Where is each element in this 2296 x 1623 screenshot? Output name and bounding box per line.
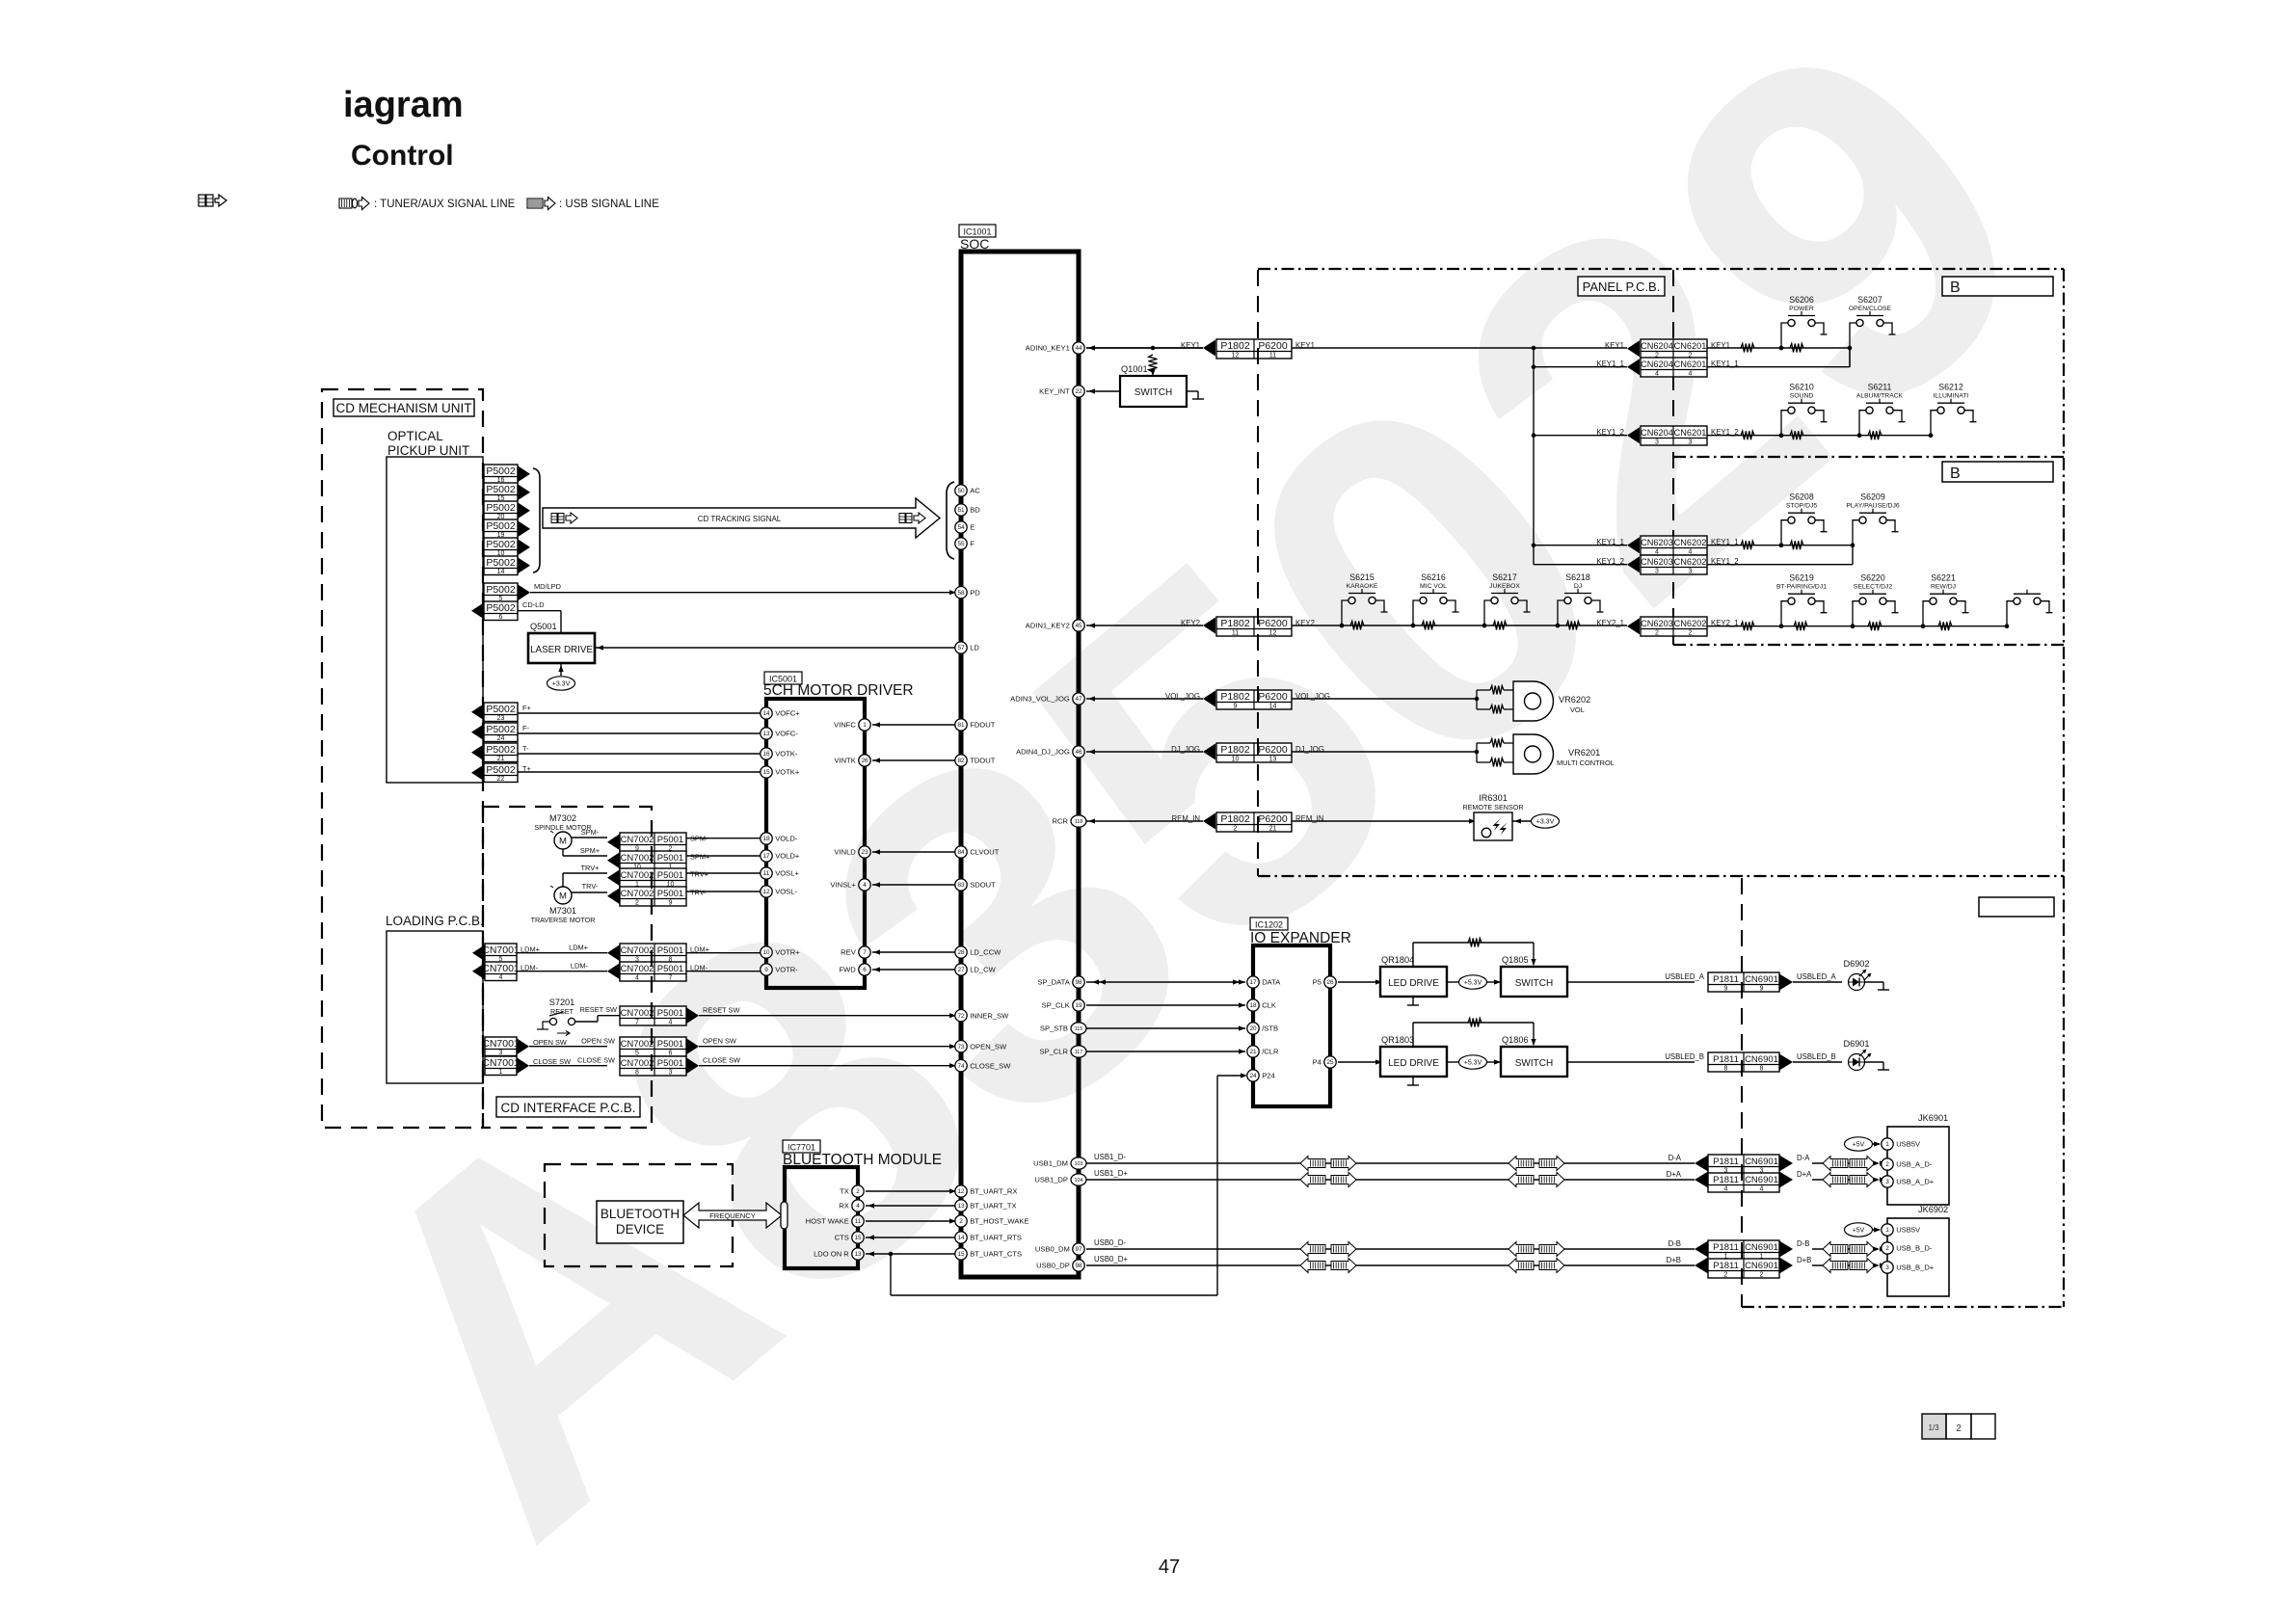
wire reset switch to table xyxy=(575,1005,620,1022)
svg-text:HOST WAKE: HOST WAKE xyxy=(806,1217,849,1226)
switch S6217 JUKEBOX xyxy=(1482,572,1531,627)
IO expander pin 24 P24 xyxy=(1247,1070,1275,1081)
svg-text:JK6902: JK6902 xyxy=(1918,1205,1948,1214)
svg-text:LD_CCW: LD_CCW xyxy=(970,948,1001,957)
IO expander pin 20 /STB xyxy=(1247,1023,1278,1034)
svg-text:P1802: P1802 xyxy=(1220,618,1250,629)
svg-text:SOUND: SOUND xyxy=(1790,393,1814,400)
svg-text:S6217: S6217 xyxy=(1492,572,1517,582)
svg-text:BT_UART_CTS: BT_UART_CTS xyxy=(970,1250,1022,1259)
wire TRV+ to motor driver xyxy=(686,872,761,874)
svg-text:RCR: RCR xyxy=(1053,817,1069,826)
svg-text:CN7001: CN7001 xyxy=(482,945,520,956)
svg-text:11: 11 xyxy=(1232,630,1239,637)
svg-text:P24: P24 xyxy=(1262,1072,1275,1080)
wire KEY1_2 B1 xyxy=(1707,433,1933,438)
svg-text:P1811: P1811 xyxy=(1713,1242,1739,1253)
svg-text:4: 4 xyxy=(635,975,639,982)
SOC pin 51 BD xyxy=(955,504,980,516)
svg-text:REM_IN: REM_IN xyxy=(1172,814,1200,823)
connector CN7002/P5001 row OPEN SW xyxy=(620,1037,736,1057)
svg-text:CD TRACKING SIGNAL: CD TRACKING SIGNAL xyxy=(698,515,782,523)
svg-text:SPM-: SPM- xyxy=(581,828,600,837)
wire LDM+ to motor driver xyxy=(686,952,761,954)
svg-text:D+B: D+B xyxy=(1667,1256,1681,1264)
svg-text:26: 26 xyxy=(861,758,868,764)
svg-text:P1802: P1802 xyxy=(1220,691,1250,703)
svg-text:14: 14 xyxy=(957,1235,965,1241)
svg-text:2: 2 xyxy=(1689,630,1693,637)
svg-text:LED DRIVE: LED DRIVE xyxy=(1388,978,1439,989)
svg-text:12: 12 xyxy=(762,889,770,895)
svg-text:REW/DJ: REW/DJ xyxy=(1931,584,1956,591)
sheet index boxes xyxy=(1922,1414,1995,1439)
SOC pin 54 E xyxy=(955,521,974,533)
motor driver pin 26 VINTK xyxy=(834,755,870,766)
IO expander IC1202 box xyxy=(1253,945,1330,1106)
svg-text:9: 9 xyxy=(669,900,673,907)
wire TRV- from motor xyxy=(572,882,607,892)
CD INTERFACE P.C.B. label xyxy=(496,1097,640,1117)
svg-text:12: 12 xyxy=(957,1188,965,1195)
svg-text:RESET SW: RESET SW xyxy=(580,1005,617,1014)
connector P5002 pin 5 MD/LPD xyxy=(484,582,561,602)
resistor under S6208 xyxy=(1790,541,1803,549)
svg-text:P5002: P5002 xyxy=(486,584,516,596)
wire D-B to USB jack xyxy=(1812,1242,1886,1257)
SOC pin 118 RCR xyxy=(1053,815,1086,827)
svg-text:CN7002: CN7002 xyxy=(621,1039,654,1050)
svg-text:9: 9 xyxy=(1760,986,1764,993)
svg-text:PANEL P.C.B.: PANEL P.C.B. xyxy=(1583,279,1661,294)
svg-text:15: 15 xyxy=(762,769,770,776)
svg-text:1: 1 xyxy=(1885,1227,1889,1234)
svg-text:24: 24 xyxy=(497,735,505,742)
svg-text:44: 44 xyxy=(1075,345,1082,352)
SOC pin 14 BT_UART_RTS xyxy=(955,1232,1022,1243)
JK6902 pin 2 USB_B_D- xyxy=(1882,1242,1933,1254)
svg-text:P1802: P1802 xyxy=(1220,340,1250,352)
svg-text:KEY1: KEY1 xyxy=(1605,341,1624,350)
wire KEY1_2 lower xyxy=(1534,564,1627,566)
svg-text:1/3: 1/3 xyxy=(1928,1423,1939,1432)
wire KEY1_1 B2 xyxy=(1707,543,1855,547)
svg-text:P5002: P5002 xyxy=(486,724,516,735)
svg-text:8: 8 xyxy=(635,1070,639,1077)
SOC pin 115 SP_STB xyxy=(1040,1023,1086,1034)
wire USBLED_B to connector xyxy=(1567,1052,1704,1062)
svg-text:CN6202: CN6202 xyxy=(1674,557,1707,567)
svg-text:47: 47 xyxy=(1075,696,1082,703)
wire SPM+ from motor xyxy=(563,846,607,856)
svg-text:P5001: P5001 xyxy=(657,945,683,956)
svg-text:P5001: P5001 xyxy=(657,964,683,974)
motor driver pin 12 VOSL- xyxy=(761,886,798,897)
connector CN6204/CN6201 KEY1_1 xyxy=(1596,358,1738,378)
svg-text:MIC VOL: MIC VOL xyxy=(1420,583,1447,590)
svg-text:USBLED_A: USBLED_A xyxy=(1797,972,1837,981)
svg-text:CN6901: CN6901 xyxy=(1745,974,1778,985)
SOC pin 83 SDOUT xyxy=(955,879,996,891)
svg-text:/STB: /STB xyxy=(1262,1024,1278,1033)
svg-text:CN7002: CN7002 xyxy=(621,853,654,864)
svg-text:USB0_D+: USB0_D+ xyxy=(1094,1255,1128,1264)
svg-text:TRV-: TRV- xyxy=(690,889,707,897)
wire USB1_D+ data line xyxy=(1086,1169,1695,1180)
svg-text:CLOSE SW: CLOSE SW xyxy=(577,1056,615,1065)
sub-board B1 divider xyxy=(1673,456,2064,458)
svg-text:DJ_JOG: DJ_JOG xyxy=(1171,745,1200,754)
svg-text:14: 14 xyxy=(497,569,505,575)
svg-text:4: 4 xyxy=(1655,371,1659,378)
wire IO expander to QR1803 xyxy=(1338,1059,1382,1064)
bluetooth device boundary xyxy=(545,1164,733,1266)
IO EXPANDER title xyxy=(1250,930,1351,946)
resistor under S6219 xyxy=(1794,622,1807,630)
wire SOC to VOL_JOG connector xyxy=(1086,696,1203,701)
resistor under S6218 xyxy=(1566,622,1580,630)
SOC pin 98 SP_DATA xyxy=(1037,976,1084,988)
svg-text:JK6901: JK6901 xyxy=(1918,1113,1948,1123)
svg-text:SWITCH: SWITCH xyxy=(1135,387,1172,398)
SOC pin 97 USB0_DM xyxy=(1035,1243,1084,1255)
SOC pin 117 SP_CLR xyxy=(1039,1046,1086,1057)
connector JK6901 box xyxy=(1887,1127,1949,1205)
connector P5002 pin 14 xyxy=(484,556,530,575)
svg-text:11: 11 xyxy=(855,1218,862,1225)
wire motor driver to SOC xyxy=(872,967,955,971)
CD TRACKING SIGNAL bus arrow xyxy=(543,498,940,538)
svg-text:21: 21 xyxy=(497,756,505,762)
SOC pin 57 LD xyxy=(955,642,980,653)
svg-text:IC1202: IC1202 xyxy=(1255,920,1283,930)
CD INTERFACE P.C.B. boundary xyxy=(483,807,652,1128)
svg-text:S6207: S6207 xyxy=(1857,295,1882,305)
motor driver pin 14 VOFC+ xyxy=(761,707,800,719)
svg-text:21: 21 xyxy=(1249,1049,1257,1055)
svg-text:LDM-: LDM- xyxy=(571,962,589,971)
connector P5002 pin 10 xyxy=(484,538,530,557)
svg-text:BT_UART_RTS: BT_UART_RTS xyxy=(970,1234,1022,1242)
svg-text:REV: REV xyxy=(841,948,857,957)
svg-text:P5001: P5001 xyxy=(657,870,683,881)
svg-text:CN6204: CN6204 xyxy=(1641,428,1673,438)
switch S6216 MIC VOL xyxy=(1411,572,1459,627)
svg-text:S6211: S6211 xyxy=(1868,383,1892,392)
wire SOC to DJ_JOG connector xyxy=(1086,749,1203,754)
potentiometer VR6202 VOL xyxy=(1475,681,1591,721)
wire KEY1 B1 xyxy=(1707,346,1852,351)
wire VOL_JOG to VR6202 xyxy=(1292,698,1477,700)
svg-text:E: E xyxy=(970,523,974,532)
motor driver pin 10 VOTR+ xyxy=(761,946,800,958)
svg-text:SP_CLK: SP_CLK xyxy=(1042,1001,1070,1010)
connector P1811/CN6901 D+B xyxy=(1667,1256,1812,1279)
svg-text:5CH MOTOR DRIVER: 5CH MOTOR DRIVER xyxy=(763,682,914,699)
SOC pin 55 F xyxy=(955,538,974,549)
svg-text:JUKEBOX: JUKEBOX xyxy=(1489,583,1520,590)
svg-text:REMOTE SENSOR: REMOTE SENSOR xyxy=(1462,803,1523,811)
motor driver pin 13 VOFC- xyxy=(761,728,798,739)
connector P5002 pin 20 xyxy=(484,501,530,520)
SWITCH block Q1806 xyxy=(1501,1047,1567,1077)
svg-text:S6219: S6219 xyxy=(1789,573,1814,583)
svg-text:D6901: D6901 xyxy=(1843,1039,1869,1049)
svg-text:VOLD+: VOLD+ xyxy=(775,852,800,861)
svg-text:VOTR-: VOTR- xyxy=(775,966,798,974)
switch S6206 POWER xyxy=(1779,295,1828,350)
svg-text:25: 25 xyxy=(1326,1059,1334,1066)
svg-text:4: 4 xyxy=(669,1020,673,1026)
IO expander pin 21 /CLR xyxy=(1247,1046,1279,1057)
main/panel dashed boundary xyxy=(1257,270,1259,876)
wire USBLED_A to connector xyxy=(1567,972,1705,982)
svg-text:ALBUM/TRACK: ALBUM/TRACK xyxy=(1856,393,1904,400)
svg-text:81: 81 xyxy=(957,722,965,729)
connector CN6203/CN6202 KEY1_2 lower xyxy=(1596,555,1738,575)
motor driver pin 17 VOLD+ xyxy=(761,850,800,862)
wire SP bus xyxy=(1086,1049,1245,1053)
connector CN7002/P5001 row RESET SW xyxy=(620,1006,739,1026)
svg-text:+3.3V: +3.3V xyxy=(1536,818,1555,825)
potentiometer VR6201 MULTI CONTROL xyxy=(1475,734,1615,774)
op-amp U IC5001 5CH motor driver box xyxy=(766,699,865,988)
svg-text:: TUNER/AUX SIGNAL LINE: : TUNER/AUX SIGNAL LINE xyxy=(374,199,516,210)
svg-text:13: 13 xyxy=(1269,757,1277,763)
svg-text:CN6201: CN6201 xyxy=(1674,428,1707,438)
svg-text:LED DRIVE: LED DRIVE xyxy=(1388,1058,1439,1069)
SOC pin 27 LD_CW xyxy=(955,964,997,975)
svg-text:VINLD: VINLD xyxy=(834,848,856,857)
svg-text:VOL: VOL xyxy=(1570,705,1585,714)
svg-text:S6209: S6209 xyxy=(1860,492,1885,502)
svg-text:3: 3 xyxy=(499,1050,503,1056)
svg-text:2: 2 xyxy=(1760,1272,1764,1279)
svg-text:CN7001: CN7001 xyxy=(482,963,520,974)
svg-text:TRAVERSE MOTOR: TRAVERSE MOTOR xyxy=(531,916,596,924)
svg-text:BT_HOST_WAKE: BT_HOST_WAKE xyxy=(970,1217,1028,1226)
wire KEY1_1 row xyxy=(1534,366,1627,368)
svg-text:9: 9 xyxy=(1234,704,1238,710)
connector P1802/P6200 REM_IN xyxy=(1172,812,1324,833)
svg-text:46: 46 xyxy=(1075,749,1082,756)
wire REM_IN to IR6301 xyxy=(1292,818,1476,823)
svg-text:CN7001: CN7001 xyxy=(482,1057,520,1069)
svg-text:D-A: D-A xyxy=(1797,1154,1810,1162)
svg-text:2: 2 xyxy=(1885,1245,1889,1252)
svg-text:P6200: P6200 xyxy=(1258,691,1288,703)
connector CN6203/CN6202 KEY1_1 lower xyxy=(1596,536,1738,556)
svg-text:13: 13 xyxy=(957,1203,965,1210)
wire D+B to USB jack xyxy=(1812,1259,1886,1273)
svg-text:S6220: S6220 xyxy=(1860,573,1885,583)
svg-text:CN6203: CN6203 xyxy=(1641,619,1673,628)
svg-text:3: 3 xyxy=(1689,439,1693,446)
wire SP bus xyxy=(1086,979,1245,984)
svg-text:CN6901: CN6901 xyxy=(1745,1261,1778,1271)
IO expander pin 18 CLK xyxy=(1247,999,1276,1011)
wire SOC to KEY1 connector xyxy=(1086,345,1203,350)
connector P1811/CN6901 USBLED_B xyxy=(1708,1052,1836,1073)
panel sub-board dashed boundary xyxy=(1672,270,1674,645)
empty label box xyxy=(1979,897,2054,917)
JK6901 pin 3 USB_A_D+ xyxy=(1882,1176,1935,1187)
svg-text:4: 4 xyxy=(863,882,867,889)
connector CN7002/P5001 row SPM+ xyxy=(607,851,709,871)
svg-text:P5002: P5002 xyxy=(486,539,516,550)
svg-text:8: 8 xyxy=(1724,1066,1728,1073)
svg-text:+5V: +5V xyxy=(1853,1141,1865,1148)
PANEL P.C.B. boundary box xyxy=(1258,269,2064,876)
connector CN7002/P5001 row LDM- xyxy=(607,962,708,982)
svg-text:F+: F+ xyxy=(522,704,531,712)
svg-text:Control: Control xyxy=(351,140,454,172)
connector P5002 pin 21 T- xyxy=(471,743,529,762)
resistor under S6221 xyxy=(1938,622,1952,630)
svg-text:74: 74 xyxy=(957,1063,965,1070)
SOC title xyxy=(960,236,989,252)
wire motor driver to SOC xyxy=(872,882,955,887)
svg-text:USB5V: USB5V xyxy=(1896,1226,1921,1235)
transistor QR1804 label xyxy=(1381,955,1414,965)
connector P1802/P6200 DJ_JOG xyxy=(1171,743,1324,763)
SOC pin 44 ADIN0_KEY1 xyxy=(1026,342,1084,354)
SOC pin 12 BT_UART_RX xyxy=(955,1185,1018,1197)
svg-text:VOL_JOG: VOL_JOG xyxy=(1165,692,1200,701)
svg-text:P1811: P1811 xyxy=(1713,1261,1739,1271)
laser drive block Q5001 xyxy=(528,633,595,663)
connector CN7001 pin 4 LDM- xyxy=(472,962,539,981)
svg-text:USB0_D-: USB0_D- xyxy=(1094,1238,1126,1247)
svg-text:98: 98 xyxy=(1075,1263,1082,1269)
wire USB1_D- data line xyxy=(1086,1153,1695,1163)
svg-text:S6218: S6218 xyxy=(1565,572,1590,582)
svg-text:RX: RX xyxy=(839,1202,849,1211)
bluetooth module pin 2 TX xyxy=(840,1185,864,1197)
wire CLOSE SW to SOC xyxy=(699,1063,956,1068)
svg-text:P5002: P5002 xyxy=(486,557,516,569)
svg-text:23: 23 xyxy=(497,715,505,722)
svg-text:P5: P5 xyxy=(1313,978,1322,987)
motor driver pin 7 REV xyxy=(841,946,870,958)
resistor under S6211 xyxy=(1868,431,1882,439)
IC7701 reference label xyxy=(783,1140,820,1153)
switch S6209 PLAY/PAUSE/DJ6 xyxy=(1846,492,1899,532)
svg-text:KARAOKE: KARAOKE xyxy=(1347,583,1378,590)
connector P5002 pin 24 F- xyxy=(471,723,530,742)
svg-text:1: 1 xyxy=(1885,1141,1889,1148)
svg-text:SWITCH: SWITCH xyxy=(1515,978,1553,989)
svg-text:14: 14 xyxy=(762,710,770,717)
wire SP bus xyxy=(1086,1002,1245,1007)
wire motor driver to SOC xyxy=(872,949,955,954)
svg-text:DATA: DATA xyxy=(1262,978,1281,987)
svg-text:CD INTERFACE P.C.B.: CD INTERFACE P.C.B. xyxy=(500,1101,635,1115)
wire KEY2 panel xyxy=(1292,624,1627,628)
svg-text:P1811: P1811 xyxy=(1713,1175,1739,1185)
svg-text:USBLED_A: USBLED_A xyxy=(1665,972,1705,981)
wire DJ_JOG to VR6201 xyxy=(1292,751,1477,753)
svg-text:D6902: D6902 xyxy=(1843,959,1869,969)
svg-text:POWER: POWER xyxy=(1789,306,1814,312)
svg-text:DJ: DJ xyxy=(1574,583,1582,590)
bluetooth module pin 13 LDO ON R xyxy=(814,1248,864,1260)
svg-text:TDOUT: TDOUT xyxy=(970,757,996,765)
svg-text:P6200: P6200 xyxy=(1258,813,1288,825)
svg-text:M: M xyxy=(559,836,567,846)
svg-text:P6200: P6200 xyxy=(1258,744,1288,756)
svg-text:4: 4 xyxy=(1689,371,1693,378)
svg-text:12: 12 xyxy=(1269,630,1277,637)
connector CN7002/P5001 row TRV- xyxy=(607,887,707,907)
motor driver pin 11 VOSL+ xyxy=(761,867,800,879)
SOC pin 46 ADIN4_DJ_JOG xyxy=(1016,746,1084,758)
sub-board dashed boundary right xyxy=(1741,878,1743,1307)
connector P1811/CN6901 D-B xyxy=(1669,1239,1810,1261)
svg-text:13: 13 xyxy=(854,1251,862,1258)
svg-text:SP_DATA: SP_DATA xyxy=(1037,978,1070,987)
resistor pull at Q1001 xyxy=(1149,355,1158,376)
svg-text:SPM+: SPM+ xyxy=(580,846,600,855)
resistor KEY1_2 in xyxy=(1741,431,1754,439)
svg-text:USB5V: USB5V xyxy=(1896,1140,1921,1149)
resistor KEY1 in xyxy=(1741,344,1754,353)
connector CN6204/CN6201 KEY1 xyxy=(1605,339,1730,359)
svg-text:CN6202: CN6202 xyxy=(1674,538,1707,547)
motor driver pin 4 VINSL+ xyxy=(830,879,870,891)
feedback resistor QR1804-Q1805 xyxy=(1413,939,1536,968)
svg-text:USBLED_B: USBLED_B xyxy=(1665,1052,1704,1061)
svg-text:4: 4 xyxy=(1724,1186,1728,1193)
connector CN7002/P5001 row CLOSE SW xyxy=(620,1056,740,1077)
svg-text:2: 2 xyxy=(856,1188,860,1195)
5CH MOTOR DRIVER title xyxy=(763,682,914,699)
switch S6218 DJ xyxy=(1556,572,1604,627)
svg-text:LD: LD xyxy=(970,644,979,652)
svg-text:P1811: P1811 xyxy=(1713,1054,1739,1065)
SWITCH block Q1805 xyxy=(1501,967,1567,997)
OPTICAL PICKUP UNIT label xyxy=(387,429,469,458)
svg-text:P5002: P5002 xyxy=(486,602,516,614)
switch S6221 REW/DJ xyxy=(1921,573,1969,628)
jack board dash-dot boundary xyxy=(1742,876,2064,1307)
svg-text:SWITCH: SWITCH xyxy=(1515,1058,1553,1069)
wire BT RX from SOC xyxy=(866,1203,955,1208)
svg-text:S7201: S7201 xyxy=(549,998,575,1007)
svg-text:CN6204: CN6204 xyxy=(1641,359,1673,369)
resistor under S6216 xyxy=(1422,622,1435,630)
BLUETOOTH MODULE title xyxy=(783,1152,942,1168)
svg-text:MULTI CONTROL: MULTI CONTROL xyxy=(1557,758,1615,767)
svg-text:FREQUENCY: FREQUENCY xyxy=(709,1211,756,1220)
usb hatched arrows xyxy=(1300,1157,1564,1171)
svg-text:15: 15 xyxy=(854,1235,862,1241)
connector P1811/CN6901 D-A xyxy=(1669,1154,1811,1175)
title text xyxy=(343,85,464,125)
SOC pin 19 SP_CLK xyxy=(1042,999,1085,1011)
label box B lower xyxy=(1942,462,2053,482)
transistor Q1805 label xyxy=(1502,955,1529,965)
svg-text:VINTK: VINTK xyxy=(834,757,855,765)
svg-text:7: 7 xyxy=(669,975,673,982)
connector P5002 pin 6 CD-LD xyxy=(471,600,545,621)
svg-text:57: 57 xyxy=(957,645,965,652)
connector CN7001 pin 5 LDM+ xyxy=(472,944,540,963)
legend usb signal line icon xyxy=(527,198,659,211)
svg-text:16: 16 xyxy=(762,751,770,758)
label box B upper xyxy=(1942,277,2053,296)
svg-text:VOFC+: VOFC+ xyxy=(775,709,800,718)
